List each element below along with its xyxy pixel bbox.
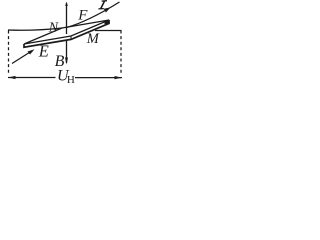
- svg-text:N: N: [48, 20, 59, 35]
- E field arrow (pointing up-right at slab): [12, 51, 33, 64]
- extension line right (dashed): [120, 31, 122, 75]
- slab front-right corner vertical edge: [70, 36, 72, 39]
- label I: [98, 1, 107, 9]
- svg-text:F: F: [77, 8, 88, 24]
- wire: right Hall probe lead from M corner: [95, 30, 122, 32]
- extension line left (dashed): [8, 31, 10, 74]
- svg-text:M: M: [86, 31, 100, 47]
- conductor slab: top face: [24, 20, 109, 44]
- svg-text:H: H: [67, 74, 75, 86]
- dimension line for U_H: left segment with outward arrow: [8, 77, 56, 79]
- conductor slab: bottom/thickness edges: [24, 20, 109, 47]
- B field arrowhead (down): [65, 58, 68, 65]
- wire: left Hall probe lead from N corner: [8, 28, 62, 30]
- dimension line for U_H: right segment with outward arrow: [75, 77, 122, 79]
- slab east tip ink fill: [105, 20, 110, 25]
- current lead wire (top right): [67, 2, 120, 28]
- F force arrow (vertical, up): [66, 3, 68, 34]
- current direction arrowhead I: [104, 7, 111, 12]
- svg-text:E: E: [38, 42, 49, 61]
- B field arrow shaft (below slab): [66, 40, 68, 63]
